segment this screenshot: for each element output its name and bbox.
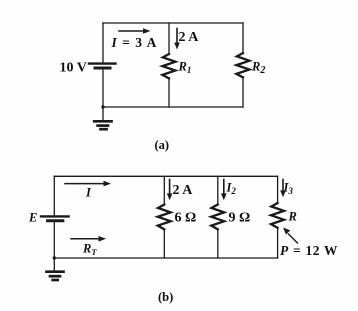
battery E positive plate bbox=[41, 215, 69, 217]
arrow I3 branch bbox=[280, 180, 286, 198]
svg-text:R2: R2 bbox=[251, 60, 265, 77]
svg-text:(b): (b) bbox=[158, 290, 173, 304]
svg-text:RT: RT bbox=[82, 242, 97, 258]
resistor 6 ohm zigzag bbox=[158, 205, 171, 230]
wire bottom of circuit (b) bbox=[54, 257, 277, 259]
arrow current I = 3 A bbox=[119, 28, 151, 34]
resistor 9 ohm zigzag bbox=[211, 205, 224, 230]
battery 10 V positive plate bbox=[89, 62, 116, 64]
svg-text:E: E bbox=[28, 211, 37, 225]
wire battery bottom lead circuit (a) bbox=[102, 70, 104, 108]
arrow R_T circuit (b) bbox=[71, 236, 106, 242]
wire R2 branch right side bbox=[242, 23, 244, 53]
svg-text:9 Ω: 9 Ω bbox=[229, 211, 251, 226]
wire top of circuit (a) bbox=[103, 22, 243, 24]
arrow I2 branch bbox=[221, 180, 227, 201]
arrow pointer from P = 12 W to resistor R bbox=[283, 228, 298, 244]
wire 6 ohm branch top lead bbox=[163, 176, 165, 204]
wire ground stub circuit (a) bbox=[102, 107, 104, 120]
wire R branch bottom lead bbox=[277, 228, 279, 258]
node junction dot circuit (a) bbox=[101, 105, 104, 108]
wire ground stub circuit (b) bbox=[53, 258, 55, 270]
wire 9 ohm branch top lead bbox=[217, 176, 219, 204]
battery 10 V negative plate bbox=[95, 67, 110, 70]
arrow 2 A branch circuit (b) bbox=[167, 180, 173, 201]
svg-text:I3: I3 bbox=[283, 181, 294, 197]
node junction dot circuit (b) bbox=[53, 256, 56, 259]
svg-text:I = 3 A: I = 3 A bbox=[111, 35, 158, 50]
wire 9 ohm branch bottom lead bbox=[217, 229, 219, 258]
wire left branch circuit (a) battery top lead bbox=[102, 23, 104, 62]
battery E negative plate bbox=[48, 219, 63, 222]
ground symbol circuit (a) bbox=[94, 121, 111, 129]
wire battery E bottom lead bbox=[53, 222, 55, 258]
wire bottom of circuit (a) bbox=[103, 106, 243, 108]
svg-text:R1: R1 bbox=[178, 60, 192, 76]
svg-text:I: I bbox=[85, 186, 92, 200]
resistor R1 zigzag bbox=[162, 54, 175, 78]
wire R branch right side circuit (b) bbox=[277, 176, 279, 203]
wire R1 branch top lead bbox=[168, 23, 170, 54]
arrow current I circuit (b) bbox=[65, 181, 111, 187]
svg-text:10 V: 10 V bbox=[60, 61, 87, 76]
svg-text:2 A: 2 A bbox=[173, 183, 194, 198]
svg-text:P = 12 W: P = 12 W bbox=[280, 243, 338, 258]
wire left branch circuit (b) battery top lead bbox=[53, 176, 55, 215]
ground symbol circuit (b) bbox=[47, 272, 64, 280]
wire R2 branch bottom lead bbox=[242, 77, 244, 107]
wire R1 branch bottom lead bbox=[168, 78, 170, 107]
svg-text:I2: I2 bbox=[226, 181, 237, 197]
arrow 2 A branch circuit (a) bbox=[174, 29, 180, 50]
resistor R2 zigzag bbox=[236, 53, 249, 77]
svg-text:6 Ω: 6 Ω bbox=[175, 211, 197, 226]
wire top of circuit (b) bbox=[54, 175, 277, 177]
svg-text:2 A: 2 A bbox=[179, 30, 200, 45]
resistor R zigzag bbox=[271, 203, 284, 228]
svg-text:(a): (a) bbox=[155, 138, 170, 152]
svg-text:R: R bbox=[288, 210, 297, 224]
wire 6 ohm branch bottom lead bbox=[163, 229, 165, 258]
